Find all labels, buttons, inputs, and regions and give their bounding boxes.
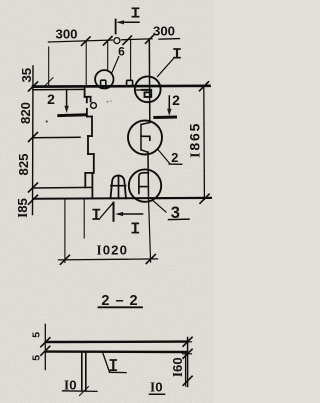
svg-text:I865: I865 bbox=[187, 122, 204, 158]
svg-text:2 – 2: 2 – 2 bbox=[101, 293, 138, 309]
svg-text:2: 2 bbox=[171, 150, 178, 165]
svg-text:300: 300 bbox=[153, 24, 175, 39]
svg-text:I85: I85 bbox=[15, 198, 30, 218]
svg-text:I020: I020 bbox=[97, 243, 129, 258]
svg-text:2: 2 bbox=[172, 92, 180, 108]
svg-text:825: 825 bbox=[16, 153, 31, 175]
svg-text:3: 3 bbox=[171, 204, 180, 222]
svg-text:5: 5 bbox=[30, 355, 42, 361]
svg-text:820: 820 bbox=[18, 102, 33, 124]
svg-text:5: 5 bbox=[30, 332, 42, 338]
svg-text:I0: I0 bbox=[64, 377, 76, 392]
svg-text:2: 2 bbox=[47, 91, 55, 107]
svg-text:35: 35 bbox=[19, 68, 34, 83]
svg-text:I0: I0 bbox=[150, 379, 162, 394]
svg-text:300: 300 bbox=[55, 27, 77, 42]
svg-text:6: 6 bbox=[118, 45, 125, 59]
svg-text:I60: I60 bbox=[170, 357, 185, 377]
